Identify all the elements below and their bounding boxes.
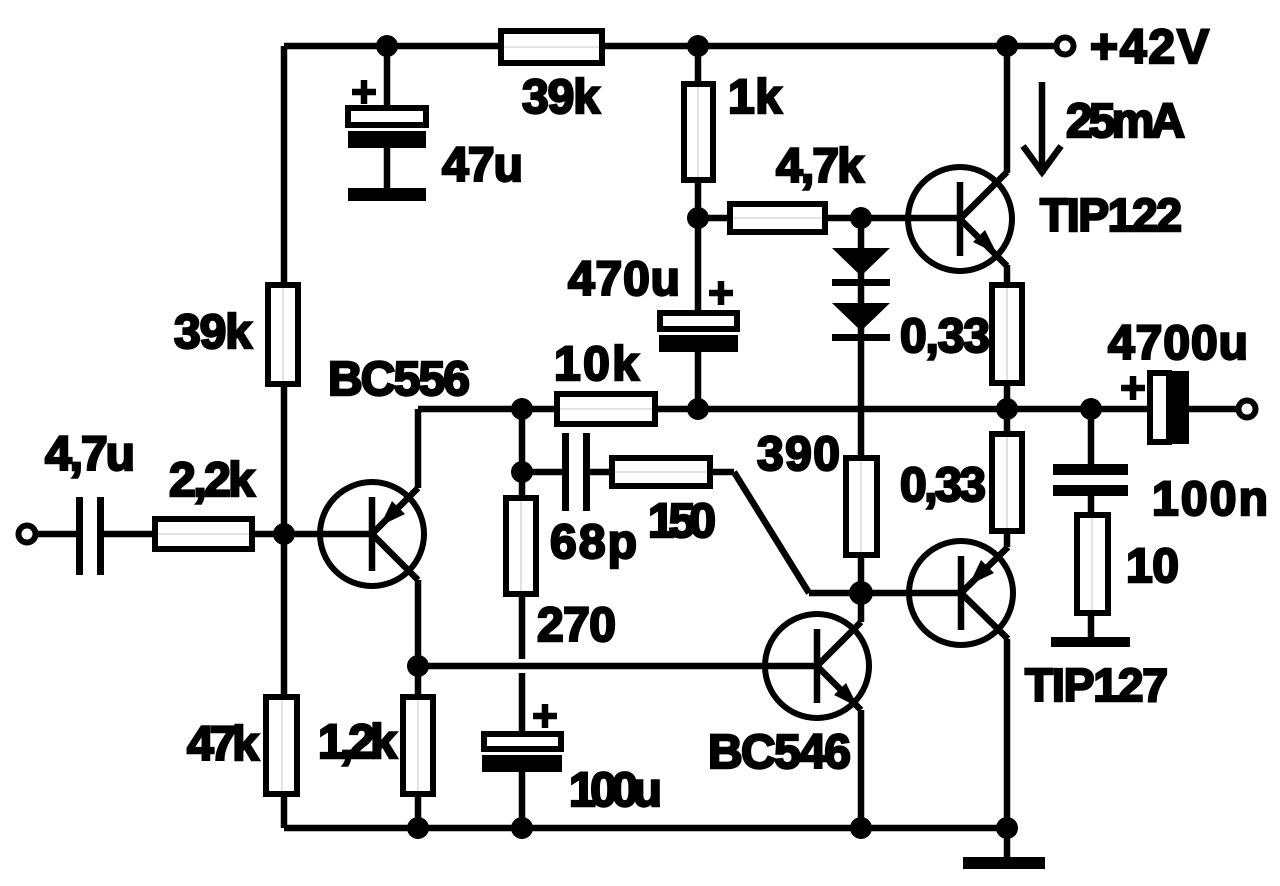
node input terminal xyxy=(19,526,36,543)
transistor Q1 BC556 emitter arrow (PNP) xyxy=(380,501,405,526)
svg-text:47k: 47k xyxy=(187,718,259,771)
node output terminal xyxy=(1239,401,1256,418)
resistor 47k xyxy=(266,697,297,794)
resistor 1,2k xyxy=(403,697,433,794)
svg-text:25mA: 25mA xyxy=(1066,95,1185,148)
node junction input xyxy=(273,523,295,545)
wire 0,33 to TIP127 emitter xyxy=(1004,531,1011,547)
svg-text:390: 390 xyxy=(757,428,840,481)
wire 100n top stub xyxy=(1088,409,1095,464)
node junction 1k top xyxy=(687,35,709,57)
wire coupling cap to 2,2k xyxy=(104,531,155,538)
diode D2 cathode bar xyxy=(832,334,890,341)
capacitor 68p right plate xyxy=(583,433,590,511)
wire 68p node vertical xyxy=(519,409,526,498)
transistor Q4 TIP127 emitter arrow (PNP) xyxy=(969,560,994,585)
wire between 0,33 resistors xyxy=(1004,383,1011,434)
wire 47u cap mid stub xyxy=(384,148,391,188)
transistor Q2 BC546 emitter arrow (NPN) xyxy=(834,683,858,707)
svg-text:1k: 1k xyxy=(728,71,782,124)
wire TIP127 base row xyxy=(809,590,961,597)
svg-text:47u: 47u xyxy=(442,139,523,192)
node junction TIP127 collector xyxy=(996,817,1018,839)
wire 390 to TIP127 base node xyxy=(858,555,865,593)
transistor Q2 BC546 base bar xyxy=(814,629,821,703)
capacitor 4700u positive plate xyxy=(1150,373,1169,442)
resistor 0,33 lower xyxy=(992,434,1022,531)
resistor 10k xyxy=(557,394,655,424)
resistor 39k left vertical xyxy=(268,285,298,384)
capacitor 4700u plus sign xyxy=(1121,376,1145,400)
diode D1 triangle xyxy=(832,248,890,276)
node junction BC546 emitter xyxy=(850,817,872,839)
node +42V terminal xyxy=(1057,38,1074,55)
wire BC556 emitter vertical xyxy=(415,409,422,488)
transistor Q4 TIP127 circle xyxy=(909,541,1013,645)
transistor Q4 TIP127 base bar xyxy=(958,556,965,630)
transistor Q4 TIP127 collector diagonal xyxy=(961,593,1008,639)
resistor 150 xyxy=(612,458,710,486)
svg-text:10: 10 xyxy=(1126,540,1179,593)
capacitor 100u plus sign xyxy=(533,704,557,728)
capacitor 47u negative plate xyxy=(348,131,426,148)
resistor 39k top horizontal xyxy=(501,31,602,63)
ground bar zobel xyxy=(1051,637,1130,647)
svg-text:BC556: BC556 xyxy=(328,353,470,406)
transistor Q4 TIP127 emitter diagonal xyxy=(961,547,1008,593)
capacitor 100u negative plate xyxy=(482,755,562,772)
capacitor 470u negative plate xyxy=(659,335,738,352)
wire 4700u to output terminal xyxy=(1189,406,1238,413)
wire feedback row y=409 xyxy=(418,406,1150,413)
wire top rail xyxy=(284,43,1055,50)
wire 100u bottom stub xyxy=(519,772,526,828)
transistor Q2 BC546 emitter diagonal xyxy=(817,666,861,710)
capacitor 47u positive plate xyxy=(348,108,426,125)
capacitor 47u plus sign xyxy=(352,80,376,104)
wire diagonal 150 to TIP127 base node xyxy=(734,472,809,593)
wire 270 to 100u lower xyxy=(519,673,526,734)
svg-text:68p: 68p xyxy=(550,516,637,569)
wire TIP122 collector vertical xyxy=(1004,46,1011,173)
wire 470u top stub xyxy=(695,218,702,313)
wire BC546 base row y=666 xyxy=(418,663,817,670)
svg-text:100u: 100u xyxy=(569,764,662,817)
node junction 1,2k bottom xyxy=(407,817,429,839)
node junction zobel top xyxy=(1080,398,1102,420)
resistor 2,2k xyxy=(155,519,252,549)
svg-text:4700u: 4700u xyxy=(1108,317,1248,370)
wire 1k top stub xyxy=(695,46,702,84)
resistor 1k xyxy=(684,84,713,180)
wire input to coupling cap xyxy=(36,531,76,538)
svg-text:4,7k: 4,7k xyxy=(776,140,864,193)
transistor Q2 BC546 collector diagonal xyxy=(817,622,861,666)
node junction TIP122 collector xyxy=(996,35,1018,57)
wire left vertical rail xyxy=(281,46,288,828)
wire 100n to 10 xyxy=(1088,496,1095,515)
capacitor 4,7u input left plate xyxy=(76,497,83,575)
transistor Q3 TIP122 emitter arrow (NPN) xyxy=(973,230,997,254)
svg-text:+42V: +42V xyxy=(1090,21,1209,74)
wire 150 output stub xyxy=(710,469,734,476)
wire BC556 collector vertical xyxy=(415,580,422,697)
capacitor 68p left plate xyxy=(562,433,569,511)
node junction 68p top xyxy=(511,398,533,420)
wire diode chain vertical xyxy=(858,218,865,458)
transistor Q2 BC546 circle xyxy=(765,614,869,718)
node junction 1k bottom xyxy=(687,207,709,229)
svg-text:1,2k: 1,2k xyxy=(318,716,397,769)
node junction diode top xyxy=(850,207,872,229)
node junction 47u top xyxy=(376,35,398,57)
node junction TIP127 base xyxy=(849,581,873,605)
ground bar main xyxy=(963,857,1045,869)
wire BC546 collector vertical xyxy=(858,593,865,622)
diode D1 cathode bar xyxy=(832,279,890,286)
ground bar 47u xyxy=(348,188,426,201)
wire 470u bottom stub xyxy=(695,352,702,409)
wire 4,7k row y=218 xyxy=(698,215,960,222)
capacitor 4700u negative plate xyxy=(1172,371,1189,444)
resistor 10 zobel xyxy=(1077,515,1108,613)
resistor 390 xyxy=(846,458,877,555)
capacitor 100n top plate xyxy=(1053,464,1128,475)
capacitor 470u plus sign xyxy=(709,281,733,305)
svg-text:TIP127: TIP127 xyxy=(1025,659,1168,711)
wire BC546 emitter vertical xyxy=(858,710,865,828)
resistor 0,33 upper xyxy=(992,285,1022,383)
svg-text:39k: 39k xyxy=(174,306,252,359)
wire 68p to 150 xyxy=(590,469,612,476)
wire bottom rail xyxy=(284,825,1007,832)
wire 47u cap top stub xyxy=(384,46,391,108)
wire ground stub xyxy=(1004,828,1011,858)
svg-text:39k: 39k xyxy=(522,71,600,124)
capacitor 100n bottom plate xyxy=(1053,485,1128,496)
wire 270 to 100u upper xyxy=(519,594,526,659)
transistor Q3 TIP122 circle xyxy=(908,167,1012,271)
svg-text:TIP122: TIP122 xyxy=(1040,189,1182,241)
wire 2,2k to BC556 base xyxy=(252,531,372,538)
transistor Q1 BC556 base bar xyxy=(369,497,376,571)
wire 68p left stub xyxy=(522,469,563,476)
node junction output rail xyxy=(996,398,1018,420)
svg-text:2,2k: 2,2k xyxy=(169,454,255,507)
svg-text:0,33: 0,33 xyxy=(900,310,990,363)
wire 1k bottom stub xyxy=(695,180,702,218)
transistor Q3 TIP122 collector diagonal xyxy=(960,172,1007,219)
svg-text:BC546: BC546 xyxy=(708,726,851,779)
svg-text:470u: 470u xyxy=(568,253,680,306)
wire 10 to zobel ground xyxy=(1088,613,1095,642)
resistor 270 xyxy=(506,498,536,594)
svg-text:100n: 100n xyxy=(1152,473,1268,526)
node junction BC556 collector xyxy=(407,655,429,677)
svg-text:0,33: 0,33 xyxy=(900,459,986,512)
transistor Q1 BC556 collector diagonal xyxy=(372,534,418,580)
capacitor 100u positive plate xyxy=(484,734,561,749)
svg-text:10k: 10k xyxy=(554,338,639,391)
node junction 100u bottom xyxy=(511,817,533,839)
svg-text:150: 150 xyxy=(648,495,716,548)
capacitor 470u positive plate xyxy=(660,313,737,329)
diode D2 triangle xyxy=(832,303,890,331)
svg-text:270: 270 xyxy=(537,599,616,652)
capacitor 4,7u input right plate xyxy=(97,497,104,575)
transistor Q1 BC556 emitter diagonal xyxy=(372,488,418,534)
node junction 470u bottom xyxy=(687,398,709,420)
wire TIP127 collector vertical xyxy=(1004,639,1011,828)
wire TIP122 emitter to 0,33 xyxy=(1004,265,1011,285)
transistor Q1 BC556 circle xyxy=(320,482,424,586)
transistor Q3 TIP122 base bar xyxy=(957,182,964,256)
node junction 68p xyxy=(511,461,533,483)
transistor Q3 TIP122 emitter diagonal xyxy=(960,219,1007,266)
current arrow 25mA xyxy=(1023,82,1061,174)
resistor 4,7k xyxy=(730,204,825,232)
svg-text:4,7u: 4,7u xyxy=(45,428,135,481)
wire 1,2k bottom stub xyxy=(415,794,422,828)
